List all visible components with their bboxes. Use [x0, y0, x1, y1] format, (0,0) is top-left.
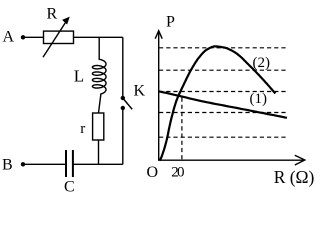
- svg-text:(2): (2): [253, 55, 271, 71]
- svg-text:O: O: [147, 164, 159, 181]
- svg-text:(1): (1): [250, 91, 268, 107]
- svg-text:L: L: [74, 67, 84, 86]
- svg-text:B: B: [2, 157, 13, 174]
- svg-text:P: P: [166, 14, 175, 31]
- svg-text:R: R: [47, 6, 58, 23]
- svg-text:A: A: [3, 29, 15, 46]
- svg-text:C: C: [64, 179, 75, 196]
- svg-text:R (Ω): R (Ω): [274, 167, 315, 187]
- svg-text:r: r: [80, 121, 85, 137]
- svg-text:20: 20: [171, 164, 184, 180]
- svg-text:K: K: [134, 82, 146, 99]
